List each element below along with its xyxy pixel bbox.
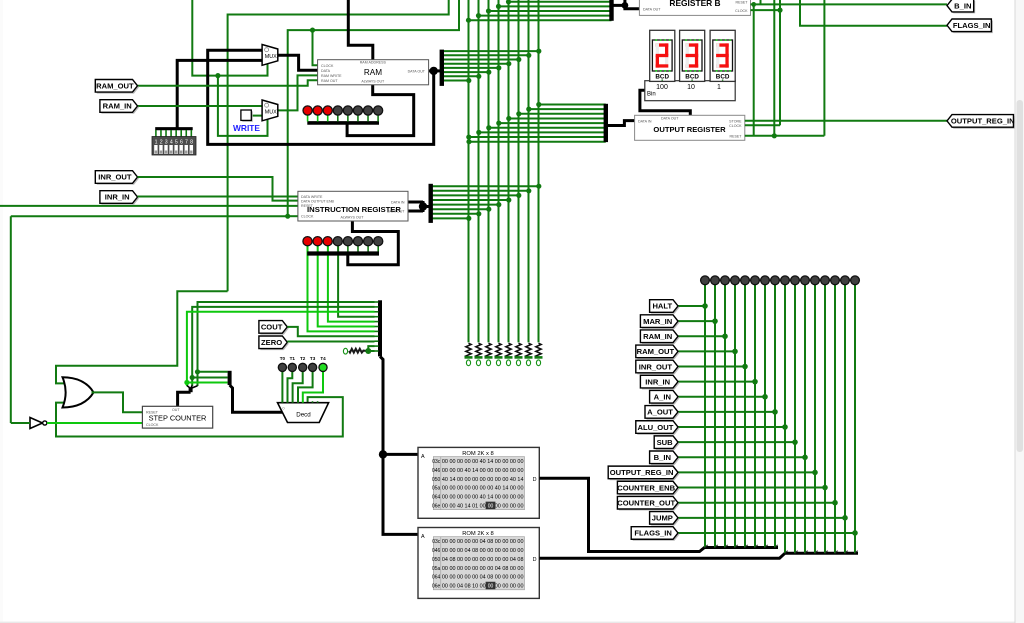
label RAM_IN with wire to control bus: [640, 330, 727, 344]
svg-text:JUMP: JUMP: [652, 514, 673, 523]
svg-text:FLAGS_IN: FLAGS_IN: [634, 529, 672, 538]
svg-text:050: 050: [432, 557, 441, 563]
wire: clock net to register B / output register: [745, 0, 783, 125]
splitter ticks where control wires join ROM data buses: [705, 545, 858, 553]
svg-text:A: A: [421, 534, 425, 540]
splitter: step counter out 3-bit: [178, 386, 198, 407]
svg-text:REGISTER B: REGISTER B: [669, 0, 720, 8]
svg-text:D: D: [533, 477, 537, 483]
svg-text:00 00 00 00 00 00 00 40 14 00: 00 00 00 00 00 00 00 40 14 00 00: [442, 486, 524, 492]
STEP COUNTER U4: [142, 406, 212, 428]
svg-text:CLOCK: CLOCK: [729, 124, 742, 128]
wire: RAM address from top: [348, 0, 373, 60]
label MAR_IN with wire to control bus: [640, 315, 717, 329]
label SUB with wire to control bus: [654, 436, 798, 450]
svg-text:3: 3: [165, 140, 168, 146]
svg-text:RESET: RESET: [301, 204, 314, 208]
svg-text:00 00 00 00 00 04 08 00 00 00: 00 00 00 00 00 04 08 00 00 00 00: [442, 575, 524, 581]
resistor R0 pull for unused address bits: [343, 346, 374, 354]
wire: NOT output to step counter clock: [47, 422, 142, 424]
svg-text:1: 1: [717, 84, 721, 91]
svg-text:BCD: BCD: [655, 74, 669, 81]
svg-text:064: 064: [432, 575, 441, 581]
svg-text:050: 050: [432, 477, 441, 483]
wire: REGISTER B data bus from splitter: [613, 0, 639, 9]
svg-text:T4: T4: [320, 356, 326, 361]
svg-text:03c: 03c: [432, 459, 441, 465]
svg-text:6: 6: [180, 140, 183, 146]
svg-text:RAM ADDRESS: RAM ADDRESS: [360, 61, 387, 65]
wire: IR reset line from screen left: [0, 205, 298, 207]
svg-text:FLAGS_IN: FLAGS_IN: [953, 21, 991, 30]
svg-text:ALWAYS OUT: ALWAYS OUT: [361, 80, 385, 84]
label OUTPUT_REG_IN with wire to control bus: [608, 466, 818, 480]
label COUNTER_ENB with wire to control bus: [617, 481, 828, 495]
wire: IR data-in/out bus junction: [408, 201, 431, 212]
svg-text:CLOCK: CLOCK: [735, 9, 748, 13]
svg-text:00 00 00 00 00 40 14 00 00 00: 00 00 00 00 00 40 14 00 00 00 00: [442, 459, 524, 465]
svg-text:RAM: RAM: [364, 68, 382, 77]
svg-text:00 00 40 14 01 00 00 00 00 00: 00 00 40 14 01 00 00 00 00 00 00: [442, 503, 524, 509]
wire: OUTPUT REGISTER data-in from splitter: [607, 121, 635, 126]
label OUTPUT_REG_IN: [949, 116, 1015, 129]
svg-text:STORE: STORE: [729, 119, 742, 123]
svg-text:OUTPUT_REG_IN: OUTPUT_REG_IN: [951, 117, 1015, 126]
svg-text:046: 046: [432, 548, 441, 554]
svg-text:00 00 04 08 10 00 00 00 00 00: 00 00 04 08 10 00 00 00 00 00 00: [442, 583, 524, 589]
svg-text:CLOCK: CLOCK: [301, 215, 314, 219]
svg-text:DATA WRITE: DATA WRITE: [301, 195, 323, 199]
wire: B_IN net across top right: [751, 0, 948, 136]
svg-text:ROM 2K x 8: ROM 2K x 8: [462, 531, 494, 537]
wire: INR_IN to IR data-write: [138, 196, 298, 198]
svg-text:10: 10: [687, 84, 695, 91]
label INR_OUT with wire to control bus: [636, 360, 748, 374]
svg-text:Decd: Decd: [296, 412, 311, 419]
wire: T1 LED to decoder: [288, 372, 293, 403]
svg-text:ZERO: ZERO: [261, 338, 282, 347]
svg-text:RESET: RESET: [736, 0, 749, 4]
svg-text:00 00 00 00 00 40 14 00 00 00: 00 00 00 00 00 40 14 00 00 00 00: [442, 495, 524, 501]
OR gate U2: [63, 377, 94, 407]
svg-text:D: D: [533, 557, 537, 563]
multiplexer MUX2 (RAM write source): [262, 100, 278, 121]
svg-text:INR_OUT: INR_OUT: [98, 173, 132, 182]
multiplexer MUX1 (RAM data source): [262, 45, 278, 66]
wire: clock distribution y=30: [288, 0, 459, 216]
wire: T2 LED to decoder: [293, 372, 303, 403]
svg-text:RAM_OUT: RAM_OUT: [96, 82, 134, 91]
svg-text:DATA OUT: DATA OUT: [661, 117, 679, 121]
push button WRITE: [241, 110, 253, 122]
7-segment display digit 3 (tens): [680, 30, 705, 81]
7-segment display digit 2 (hundreds): [650, 30, 675, 81]
svg-text:T0: T0: [280, 356, 286, 361]
svg-text:COUT: COUT: [261, 323, 283, 332]
svg-text:MUX: MUX: [265, 54, 277, 60]
wire: clock to IR and step counter, long left run: [11, 214, 298, 423]
wire: clock into NOT gate: [11, 422, 30, 424]
svg-text:MAR_IN: MAR_IN: [643, 317, 672, 326]
main data bus: 8 vertical wires: [469, 0, 539, 342]
svg-text:INR_IN: INR_IN: [645, 377, 670, 386]
window scrollbar: [1015, 0, 1024, 623]
wire: T0 LED to decoder: [281, 372, 283, 403]
wire: halt/reset chain into OR gate input A: [56, 291, 228, 383]
wire: ROM address bus to ROM1/ROM2: [379, 356, 418, 534]
label JUMP with wire to control bus: [650, 512, 848, 526]
svg-text:1: 1: [155, 140, 158, 146]
svg-text:B_IN: B_IN: [954, 1, 971, 10]
junction on MUX1 select line: [215, 73, 220, 78]
wires: IR LED bits down to ROM address splitter: [308, 246, 379, 332]
label INR_IN with wire to control bus: [640, 375, 757, 389]
svg-text:OUT: OUT: [172, 408, 180, 412]
svg-text:COUNTER_OUT: COUNTER_OUT: [617, 498, 675, 507]
wire: MUX1 inputs rectangle from DIP bus / RAM LED loop: [177, 50, 434, 144]
label COUNTER_OUT with wire to control bus: [617, 496, 838, 510]
svg-text:A_IN: A_IN: [654, 393, 671, 402]
svg-text:WRITE: WRITE: [233, 123, 260, 133]
svg-text:DATA OUT: DATA OUT: [408, 69, 426, 73]
svg-text:100: 100: [656, 84, 668, 91]
wire: WRITE button to MUX2: [252, 115, 262, 117]
svg-text:RAM OUT: RAM OUT: [321, 79, 338, 83]
pull-down resistors R1-R8 with value 0 at bus bottom: [465, 343, 543, 365]
control bus: 16 vertical wires with indicator LEDs: [701, 276, 860, 553]
wire: T3 LED to decoder: [298, 372, 313, 403]
svg-text:7: 7: [185, 140, 188, 146]
wire: MUX1 output to RAM data pin: [278, 55, 318, 70]
IR LEDs: [303, 237, 383, 246]
label COUT: [260, 322, 288, 335]
OUTPUT REGISTER component: [635, 115, 745, 140]
wire: ROM2 data bus staircase: [539, 553, 858, 558]
wire: RAM always-out loop to RAM LEDs: [347, 85, 414, 136]
wire: RAM data-out junction: [429, 67, 442, 75]
wire: step bit 0 to ROM addr: [195, 302, 375, 386]
T state LEDs T0-T4: [278, 356, 327, 372]
wire: ZERO to ROM address splitter: [287, 341, 374, 343]
splitter: RAM data-out to bus (8 legs): [442, 49, 542, 86]
svg-text:Bin: Bin: [647, 92, 656, 98]
wire: decoder T5 loop to OR gate input B: [56, 397, 343, 436]
svg-text:00: 00: [488, 583, 494, 589]
svg-text:ALU_OUT: ALU_OUT: [637, 423, 673, 432]
svg-text:00 00 00 04 08 00 00 00 00 00: 00 00 00 04 08 00 00 00 00 00 00: [442, 548, 524, 554]
svg-text:MUX: MUX: [265, 110, 277, 116]
splitter: decoder select 3-bit: [230, 371, 283, 412]
svg-text:064: 064: [432, 495, 441, 501]
wire: OUTPUT_REG_IN net: [745, 120, 947, 122]
ROM1 2Kx8 (control word A): [418, 447, 539, 518]
svg-text:DATA IN: DATA IN: [391, 201, 405, 205]
binary to BCD converter: [645, 81, 735, 101]
splitter: ROM address 11-bit spine: [375, 300, 381, 356]
svg-text:05a: 05a: [432, 486, 441, 492]
label RAM_IN: [101, 101, 139, 114]
IR LED bus bar: [307, 251, 379, 255]
wire: INR_OUT to IR output-enable: [138, 177, 298, 201]
svg-text:OUTPUT_REG_IN: OUTPUT_REG_IN: [610, 468, 674, 477]
wire: IR always-out hook to IR LED bar: [348, 221, 399, 265]
svg-text:RAM_OUT: RAM_OUT: [637, 347, 675, 356]
svg-text:8: 8: [190, 140, 193, 146]
svg-text:00 00 00 40 14 00 00 00 00 00: 00 00 00 40 14 00 00 00 00 00 00: [442, 468, 524, 474]
REGISTER B component (cut by viewport): [639, 0, 750, 15]
wire: RAM_OUT label to RAM out pin: [138, 80, 318, 86]
svg-text:BCD: BCD: [716, 74, 730, 81]
svg-text:T2: T2: [300, 356, 306, 361]
svg-text:DATA: DATA: [321, 69, 331, 73]
svg-text:03c: 03c: [432, 539, 441, 545]
label INR_IN: [101, 192, 139, 205]
svg-text:2: 2: [160, 140, 163, 146]
splitter: INSTRUCTION REGISTER data to bus (8 legs): [431, 184, 542, 223]
svg-text:046: 046: [432, 468, 441, 474]
wire: net at x=192 from top to MUX1 select line: [192, 0, 267, 76]
wire: RAM_IN label to MUX2 input: [138, 105, 263, 107]
svg-text:DATA OUT: DATA OUT: [387, 210, 405, 214]
label FLAGS_IN: [949, 21, 993, 34]
decoder Decd (T states): [278, 401, 329, 422]
svg-text:B_IN: B_IN: [654, 453, 671, 462]
svg-text:RAM_IN: RAM_IN: [103, 102, 132, 111]
wire: reset net verticals to output register: [745, 0, 825, 138]
wire: MUX2 select loop from clock junction: [218, 76, 268, 136]
wire: MUX2 output to RAM write pin: [278, 75, 318, 110]
window bottom edge: [0, 622, 1024, 623]
svg-text:RAM_IN: RAM_IN: [643, 332, 672, 341]
wire: T4 LED to decoder (active): [303, 372, 323, 403]
svg-text:04 08 00 00 00 00 00 00 00 04: 04 08 00 00 00 00 00 00 00 04 08: [442, 557, 524, 563]
label HALT with wire to control bus: [650, 300, 708, 314]
label ZERO: [260, 338, 288, 351]
svg-text:RESET: RESET: [146, 410, 159, 414]
svg-text:40 14 00 00 00 00 00 00 00 40: 40 14 00 00 00 00 00 00 00 40 14: [442, 477, 524, 483]
wire: OR output to step counter reset: [92, 392, 143, 412]
svg-text:ROM 2K x 8: ROM 2K x 8: [462, 451, 494, 457]
7-segment display digit 3 (ones): [710, 30, 735, 81]
svg-text:05a: 05a: [432, 566, 441, 572]
svg-text:A: A: [421, 454, 425, 460]
wire: bus-top link y=14.5: [228, 0, 449, 291]
label RAM_OUT with wire to control bus: [636, 345, 738, 359]
label RAM_OUT: [97, 81, 139, 94]
wire: step bit 1 to ROM addr: [190, 307, 375, 386]
svg-text:T3: T3: [310, 356, 316, 361]
wire: ROM1 data bus staircase: [539, 478, 778, 551]
svg-text:COUNTER_ENB: COUNTER_ENB: [617, 483, 675, 492]
svg-text:RAM WRITE: RAM WRITE: [321, 74, 342, 78]
svg-text:00 00 00 00 00 04 08 00 00 00: 00 00 00 00 00 04 08 00 00 00 00: [442, 539, 524, 545]
svg-text:INR_IN: INR_IN: [105, 193, 130, 202]
label FLAGS_IN with wire to control bus: [631, 527, 858, 541]
svg-text:DATA IN: DATA IN: [638, 119, 652, 123]
label ALU_OUT with wire to control bus: [636, 421, 788, 435]
svg-text:5: 5: [175, 140, 178, 146]
svg-text:CLOCK: CLOCK: [146, 423, 159, 427]
splitter: bus taps to REGISTER B input (top fan): [466, 0, 612, 23]
ROM2 2Kx8 (control word B): [418, 528, 539, 599]
wire: step bit 2 to ROM addr (high): [184, 312, 374, 386]
wire: FLAGS_IN net: [800, 0, 947, 26]
RAM value LED bar: [307, 121, 379, 125]
svg-text:A_OUT: A_OUT: [647, 408, 673, 417]
label B_IN with wire to control bus: [650, 451, 808, 465]
DIP switch SW1 (8 positions): [152, 129, 196, 155]
NOT gate U3 (clock inverter): [30, 418, 47, 429]
label A_OUT with wire to control bus: [645, 406, 778, 420]
svg-text:06e: 06e: [432, 583, 441, 589]
svg-text:T1: T1: [290, 356, 296, 361]
splitter: bus to OUTPUT REGISTER input (9 legs): [466, 102, 606, 144]
label INR_OUT: [97, 172, 139, 185]
svg-text:00: 00: [488, 503, 494, 509]
svg-text:INR_OUT: INR_OUT: [639, 362, 673, 371]
svg-text:4: 4: [170, 140, 173, 146]
svg-text:BCD: BCD: [685, 74, 699, 81]
svg-text:ALWAYS OUT: ALWAYS OUT: [341, 215, 365, 219]
wire: COUT to ROM address splitter: [287, 327, 374, 336]
RAM LEDs D1-D8: [303, 106, 383, 115]
svg-text:OUTPUT REGISTER: OUTPUT REGISTER: [653, 125, 726, 134]
svg-text:06e: 06e: [432, 503, 441, 509]
svg-text:SUB: SUB: [657, 438, 674, 447]
label A_IN with wire to control bus: [650, 390, 768, 404]
svg-text:STEP COUNTER: STEP COUNTER: [149, 414, 207, 423]
svg-text:00 00 00 00 00 00 00 04 08 00: 00 00 00 00 00 00 00 04 08 00 00: [442, 566, 524, 572]
svg-text:CLOCK: CLOCK: [321, 64, 334, 68]
RAM 16x8 component: [318, 60, 429, 85]
svg-text:DATA OUT: DATA OUT: [643, 8, 661, 12]
label B_IN: [949, 1, 976, 14]
svg-text:RESET: RESET: [730, 134, 743, 138]
svg-text:HALT: HALT: [652, 302, 672, 311]
svg-text:DATA OUTPUT ENB: DATA OUTPUT ENB: [301, 199, 335, 203]
wire: output register data-out to BCD decoder: [640, 90, 690, 115]
INSTRUCTION REGISTER component: [298, 191, 408, 221]
